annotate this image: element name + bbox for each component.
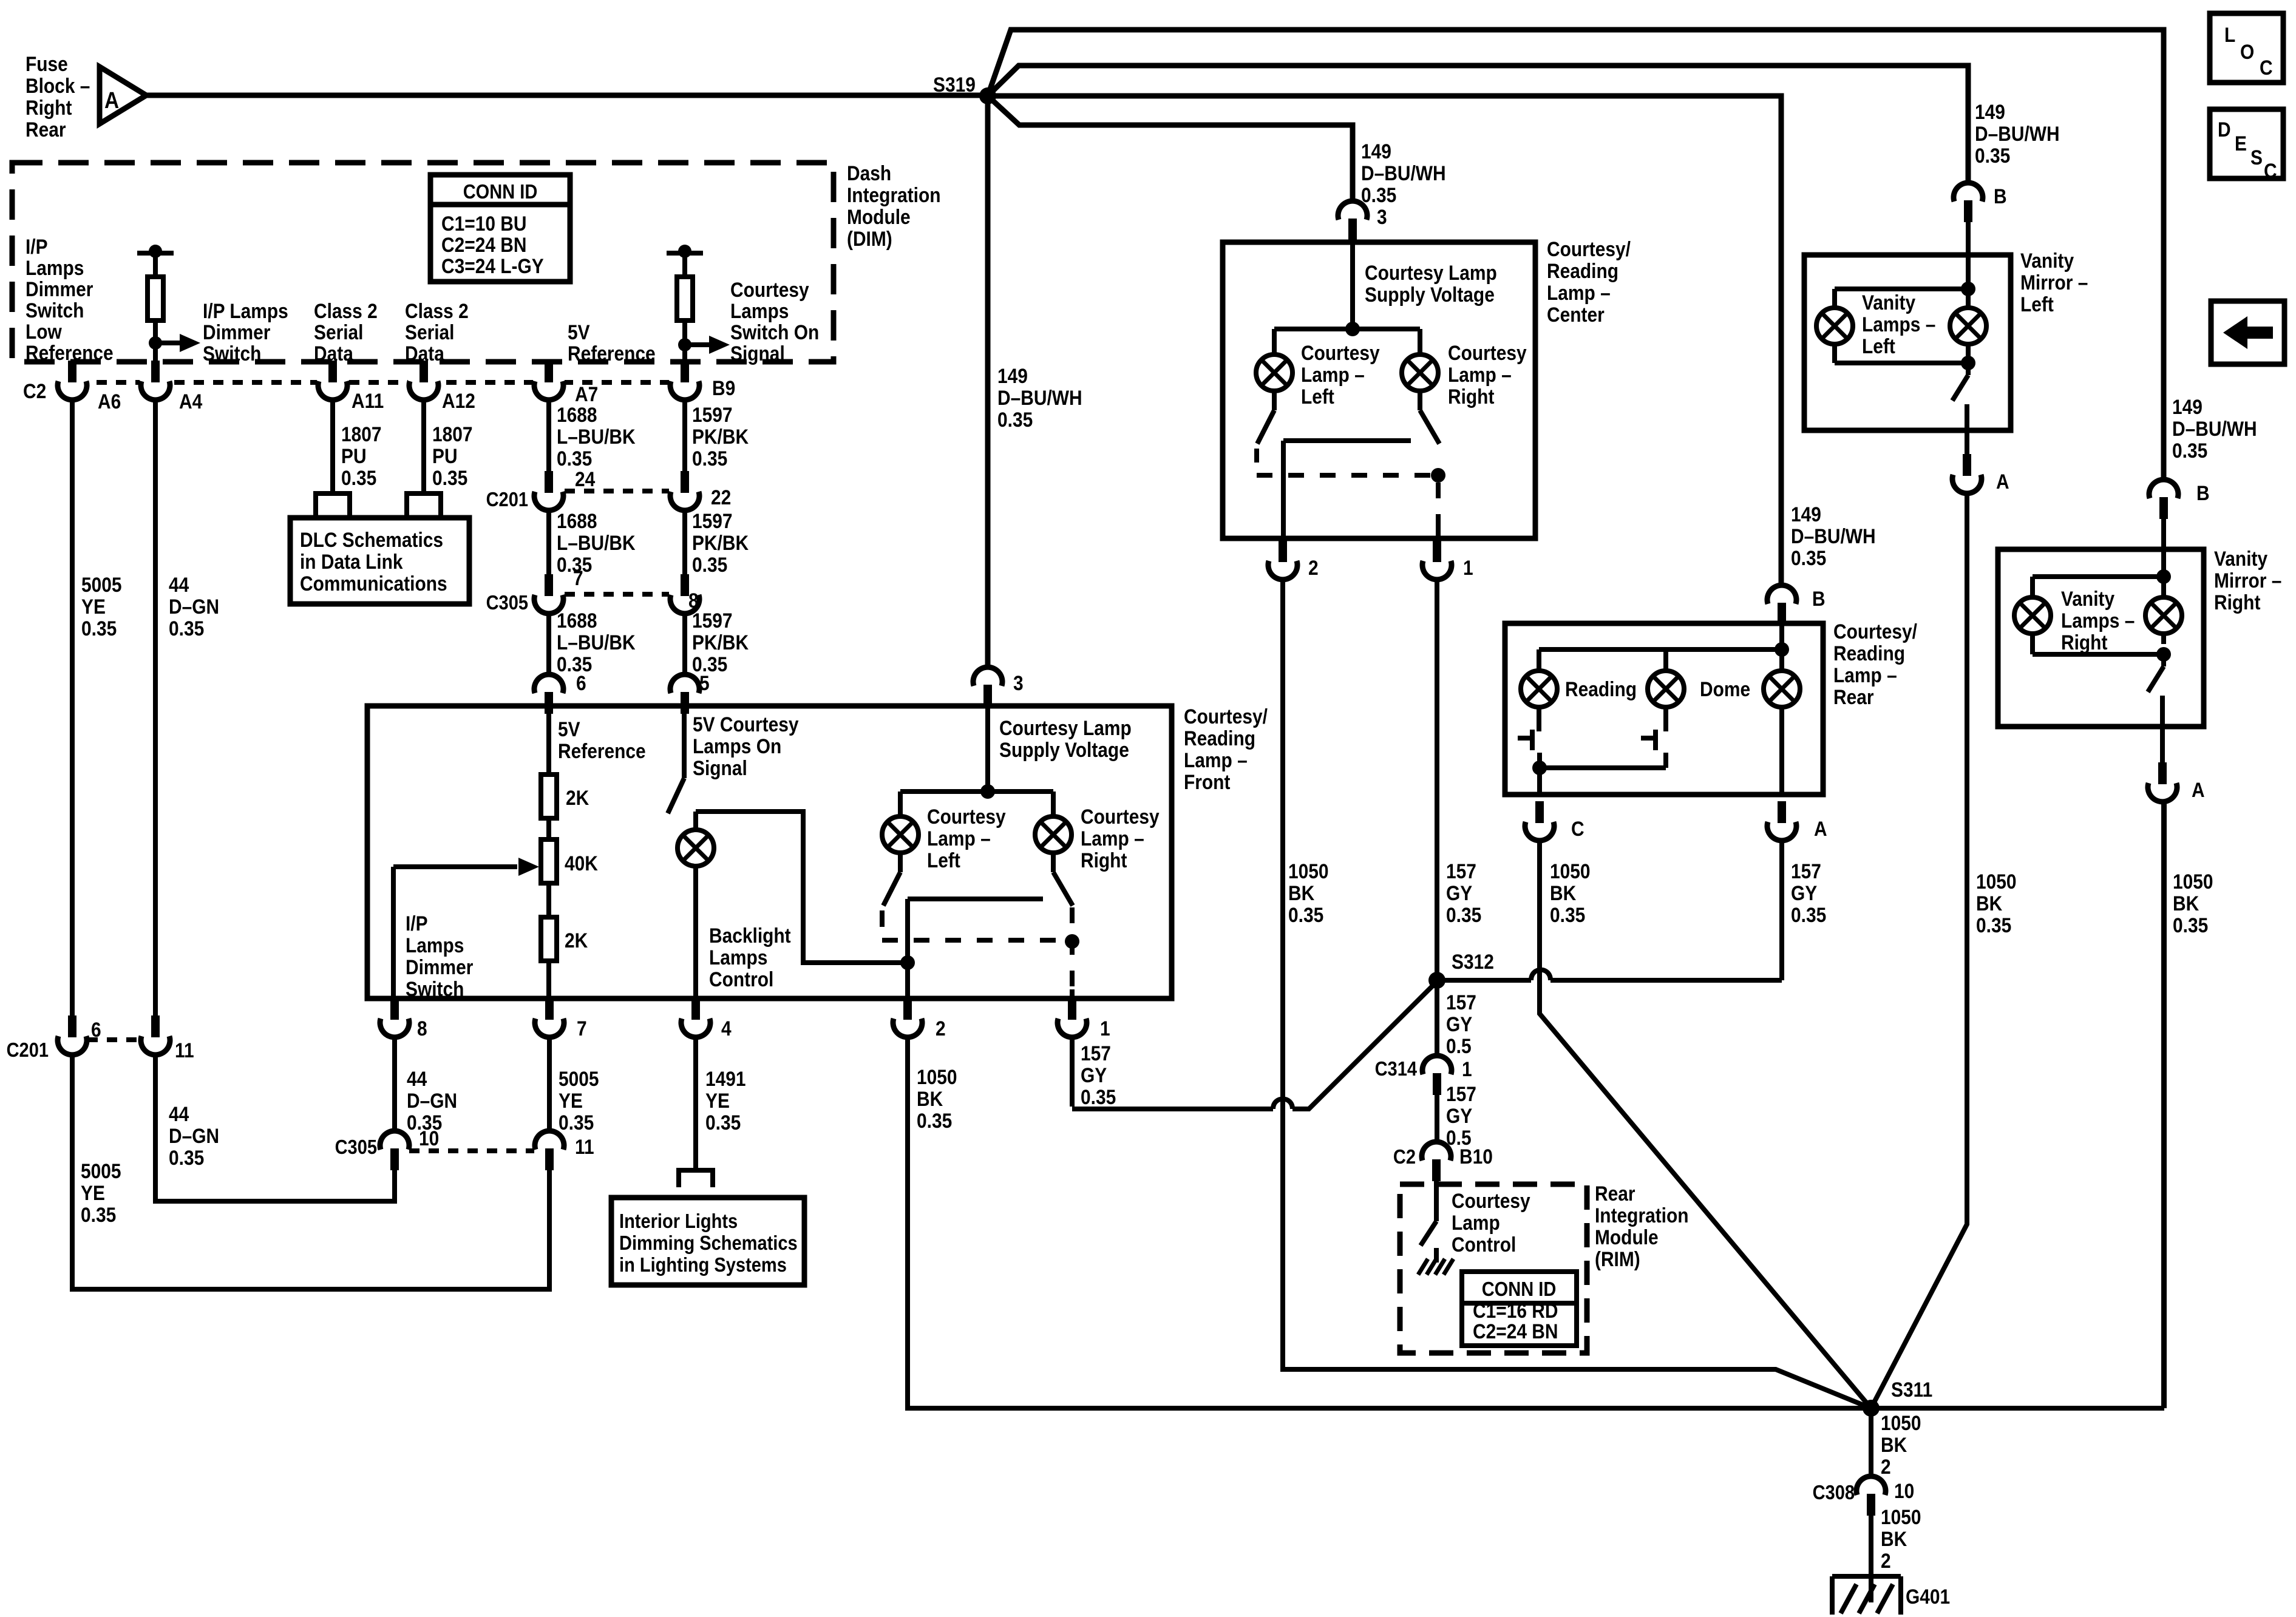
svg-text:149: 149 bbox=[997, 364, 1028, 387]
svg-text:Courtesy/: Courtesy/ bbox=[1547, 237, 1631, 260]
svg-text:CONN ID: CONN ID bbox=[463, 180, 538, 203]
svg-text:1491: 1491 bbox=[705, 1067, 746, 1090]
svg-text:Switch On: Switch On bbox=[730, 320, 819, 344]
svg-text:1050: 1050 bbox=[917, 1065, 957, 1088]
svg-text:Interior Lights: Interior Lights bbox=[619, 1210, 738, 1232]
svg-text:Reading: Reading bbox=[1547, 259, 1618, 282]
svg-text:C305: C305 bbox=[486, 591, 528, 614]
svg-text:C1=10 BU: C1=10 BU bbox=[441, 212, 526, 235]
svg-text:10: 10 bbox=[419, 1127, 439, 1150]
svg-text:3: 3 bbox=[1377, 205, 1387, 228]
svg-text:D–GN: D–GN bbox=[169, 1124, 219, 1147]
svg-text:Module: Module bbox=[847, 205, 911, 228]
svg-text:1807: 1807 bbox=[341, 422, 382, 446]
svg-text:in Data Link: in Data Link bbox=[300, 550, 403, 573]
svg-text:157: 157 bbox=[1791, 859, 1821, 883]
svg-text:(DIM): (DIM) bbox=[847, 227, 892, 250]
svg-text:Left: Left bbox=[927, 849, 960, 872]
svg-text:0.35: 0.35 bbox=[1791, 903, 1826, 926]
svg-text:Mirror –: Mirror – bbox=[2020, 271, 2088, 294]
svg-text:A6: A6 bbox=[98, 390, 121, 413]
svg-text:L: L bbox=[2224, 23, 2235, 46]
svg-text:Rear: Rear bbox=[1833, 685, 1874, 708]
svg-text:11: 11 bbox=[575, 1135, 594, 1158]
svg-text:(RIM): (RIM) bbox=[1595, 1247, 1640, 1270]
svg-text:24: 24 bbox=[575, 467, 595, 490]
svg-text:11: 11 bbox=[175, 1039, 194, 1062]
svg-text:0.35: 0.35 bbox=[692, 447, 727, 470]
svg-text:PK/BK: PK/BK bbox=[692, 631, 749, 654]
svg-text:Dimmer: Dimmer bbox=[25, 277, 93, 300]
svg-text:Lamps –: Lamps – bbox=[2061, 609, 2135, 632]
svg-text:Right: Right bbox=[1081, 849, 1127, 872]
svg-text:Control: Control bbox=[1452, 1233, 1516, 1256]
svg-text:DLC Schematics: DLC Schematics bbox=[300, 528, 443, 551]
svg-text:5005: 5005 bbox=[81, 573, 122, 596]
svg-text:C: C bbox=[2264, 159, 2277, 182]
svg-text:BK: BK bbox=[917, 1087, 943, 1110]
svg-text:44: 44 bbox=[407, 1067, 427, 1090]
svg-text:C2=24 BN: C2=24 BN bbox=[1473, 1320, 1558, 1343]
svg-text:Courtesy: Courtesy bbox=[1301, 341, 1380, 364]
svg-text:40K: 40K bbox=[565, 852, 598, 875]
svg-text:Left: Left bbox=[1862, 334, 1895, 358]
svg-text:Right: Right bbox=[2061, 631, 2108, 654]
svg-text:Backlight: Backlight bbox=[709, 924, 791, 947]
svg-text:Dash: Dash bbox=[847, 161, 891, 185]
svg-text:Reading: Reading bbox=[1184, 727, 1255, 750]
svg-text:Dimming Schematics: Dimming Schematics bbox=[619, 1232, 798, 1254]
svg-text:0.35: 0.35 bbox=[81, 1203, 116, 1226]
svg-text:0.35: 0.35 bbox=[692, 553, 727, 576]
svg-text:0.35: 0.35 bbox=[2173, 914, 2208, 937]
svg-text:0.35: 0.35 bbox=[557, 447, 592, 470]
svg-text:4: 4 bbox=[721, 1017, 732, 1040]
svg-text:Lamp –: Lamp – bbox=[1184, 748, 1248, 771]
svg-text:Lamps: Lamps bbox=[406, 934, 464, 957]
svg-text:Class 2: Class 2 bbox=[405, 299, 469, 322]
svg-text:BK: BK bbox=[1976, 892, 2002, 915]
svg-text:Lamps: Lamps bbox=[730, 299, 789, 322]
svg-text:Courtesy/: Courtesy/ bbox=[1833, 620, 1917, 643]
svg-text:0.5: 0.5 bbox=[1446, 1126, 1472, 1149]
svg-text:0.35: 0.35 bbox=[1288, 903, 1323, 926]
svg-text:149: 149 bbox=[2172, 395, 2203, 418]
svg-text:S319: S319 bbox=[933, 73, 976, 96]
svg-text:C2=24 BN: C2=24 BN bbox=[441, 233, 526, 256]
svg-text:1050: 1050 bbox=[1288, 859, 1329, 883]
svg-text:157: 157 bbox=[1081, 1042, 1111, 1065]
svg-text:E: E bbox=[2235, 132, 2247, 155]
svg-text:Courtesy: Courtesy bbox=[1081, 805, 1160, 828]
svg-text:0.35: 0.35 bbox=[1791, 546, 1826, 569]
svg-text:0.35: 0.35 bbox=[169, 617, 204, 640]
svg-text:Fuse: Fuse bbox=[25, 52, 68, 75]
svg-text:Rear: Rear bbox=[1595, 1182, 1635, 1205]
svg-text:A11: A11 bbox=[352, 389, 384, 412]
svg-text:L–BU/BK: L–BU/BK bbox=[557, 531, 636, 554]
svg-text:B9: B9 bbox=[712, 376, 735, 399]
svg-text:2: 2 bbox=[1308, 556, 1319, 579]
svg-text:Lamp: Lamp bbox=[1452, 1211, 1500, 1234]
svg-text:5V: 5V bbox=[558, 717, 580, 741]
svg-text:BK: BK bbox=[1550, 881, 1576, 904]
svg-text:157: 157 bbox=[1446, 859, 1476, 883]
svg-text:0.35: 0.35 bbox=[432, 466, 467, 489]
svg-text:Lamps: Lamps bbox=[25, 256, 84, 279]
svg-text:1: 1 bbox=[1100, 1017, 1110, 1040]
svg-text:Integration: Integration bbox=[1595, 1204, 1689, 1227]
svg-text:Signal: Signal bbox=[730, 342, 785, 365]
svg-text:A: A bbox=[1996, 470, 2009, 493]
svg-text:Front: Front bbox=[1184, 770, 1231, 793]
svg-text:Switch: Switch bbox=[406, 977, 464, 1000]
svg-text:5: 5 bbox=[699, 671, 710, 694]
svg-text:1688: 1688 bbox=[557, 609, 597, 632]
svg-text:Lamps: Lamps bbox=[709, 946, 767, 969]
svg-text:2K: 2K bbox=[566, 786, 589, 809]
svg-text:Reading: Reading bbox=[1833, 642, 1905, 665]
svg-text:A7: A7 bbox=[575, 382, 598, 405]
svg-text:1: 1 bbox=[1462, 1057, 1472, 1080]
svg-text:D–BU/WH: D–BU/WH bbox=[1791, 524, 1876, 547]
svg-text:Dimmer: Dimmer bbox=[406, 955, 473, 978]
svg-text:Reference: Reference bbox=[558, 739, 646, 762]
svg-text:0.35: 0.35 bbox=[705, 1111, 741, 1134]
svg-text:0.35: 0.35 bbox=[2172, 439, 2207, 462]
svg-text:157: 157 bbox=[1446, 1082, 1476, 1105]
svg-text:I/P: I/P bbox=[406, 912, 428, 935]
svg-text:1807: 1807 bbox=[432, 422, 473, 446]
svg-text:S311: S311 bbox=[1891, 1378, 1932, 1401]
svg-text:0.35: 0.35 bbox=[1550, 903, 1585, 926]
svg-text:A12: A12 bbox=[442, 389, 475, 412]
svg-text:Courtesy: Courtesy bbox=[1452, 1189, 1530, 1212]
svg-text:Supply Voltage: Supply Voltage bbox=[999, 738, 1129, 761]
svg-text:0.35: 0.35 bbox=[1446, 903, 1481, 926]
svg-text:149: 149 bbox=[1361, 140, 1391, 163]
svg-text:5V Courtesy: 5V Courtesy bbox=[693, 713, 799, 736]
svg-text:G401: G401 bbox=[1906, 1585, 1950, 1608]
svg-text:5V: 5V bbox=[568, 320, 590, 344]
svg-text:1050: 1050 bbox=[1550, 859, 1591, 883]
svg-text:Right: Right bbox=[2214, 591, 2261, 614]
svg-text:0.35: 0.35 bbox=[997, 408, 1033, 431]
svg-text:C305: C305 bbox=[335, 1136, 377, 1158]
svg-text:Courtesy: Courtesy bbox=[927, 805, 1006, 828]
svg-text:0.35: 0.35 bbox=[341, 466, 376, 489]
svg-text:6: 6 bbox=[91, 1018, 101, 1041]
svg-text:B: B bbox=[1812, 587, 1826, 610]
svg-text:0.35: 0.35 bbox=[81, 617, 117, 640]
svg-text:0.35: 0.35 bbox=[917, 1109, 952, 1132]
svg-text:1597: 1597 bbox=[692, 609, 733, 632]
svg-text:A4: A4 bbox=[179, 390, 202, 413]
svg-text:2K: 2K bbox=[565, 929, 588, 952]
svg-text:PU: PU bbox=[341, 444, 367, 467]
svg-text:C: C bbox=[1571, 817, 1584, 840]
svg-text:L–BU/BK: L–BU/BK bbox=[557, 425, 636, 448]
svg-text:Courtesy: Courtesy bbox=[730, 278, 809, 301]
svg-text:Class 2: Class 2 bbox=[314, 299, 378, 322]
svg-text:C314: C314 bbox=[1375, 1057, 1418, 1080]
svg-text:GY: GY bbox=[1446, 1104, 1472, 1127]
svg-text:2: 2 bbox=[936, 1017, 946, 1040]
svg-text:6: 6 bbox=[576, 671, 586, 694]
svg-text:7: 7 bbox=[577, 1017, 587, 1040]
svg-text:Module: Module bbox=[1595, 1225, 1659, 1249]
svg-text:149: 149 bbox=[1791, 503, 1821, 526]
svg-text:Lamp –: Lamp – bbox=[1833, 663, 1897, 686]
svg-text:Block –: Block – bbox=[25, 74, 90, 97]
svg-text:Lamps On: Lamps On bbox=[693, 734, 781, 758]
svg-text:0.35: 0.35 bbox=[557, 653, 592, 676]
svg-text:2: 2 bbox=[1881, 1549, 1891, 1572]
svg-text:CONN ID: CONN ID bbox=[1482, 1278, 1557, 1300]
svg-text:Switch: Switch bbox=[203, 342, 261, 365]
svg-text:GY: GY bbox=[1446, 881, 1472, 904]
svg-text:C201: C201 bbox=[7, 1039, 49, 1061]
svg-text:Serial: Serial bbox=[405, 320, 454, 344]
svg-text:Vanity: Vanity bbox=[1862, 291, 1915, 314]
svg-text:YE: YE bbox=[705, 1089, 730, 1112]
svg-text:BK: BK bbox=[1881, 1527, 1907, 1550]
svg-text:S312: S312 bbox=[1452, 950, 1494, 973]
svg-text:B: B bbox=[1994, 185, 2007, 208]
svg-text:GY: GY bbox=[1081, 1063, 1107, 1086]
svg-text:Lamp –: Lamp – bbox=[1547, 281, 1611, 304]
svg-text:1688: 1688 bbox=[557, 403, 597, 426]
svg-text:I/P Lamps: I/P Lamps bbox=[203, 299, 288, 322]
svg-text:Signal: Signal bbox=[693, 756, 747, 779]
svg-text:Supply Voltage: Supply Voltage bbox=[1365, 283, 1495, 306]
svg-text:Rear: Rear bbox=[25, 118, 66, 141]
svg-text:0.35: 0.35 bbox=[692, 653, 727, 676]
svg-text:Lamp –: Lamp – bbox=[1448, 363, 1512, 386]
svg-text:D: D bbox=[2218, 118, 2231, 141]
svg-text:PK/BK: PK/BK bbox=[692, 531, 749, 554]
svg-text:Vanity: Vanity bbox=[2061, 587, 2114, 610]
svg-text:0.5: 0.5 bbox=[1446, 1034, 1472, 1057]
svg-text:10: 10 bbox=[1894, 1479, 1914, 1502]
svg-text:3: 3 bbox=[1013, 671, 1024, 694]
svg-text:YE: YE bbox=[81, 595, 106, 618]
svg-text:Lamp –: Lamp – bbox=[927, 827, 991, 850]
svg-text:1688: 1688 bbox=[557, 509, 597, 532]
svg-text:Reference: Reference bbox=[568, 342, 656, 365]
svg-text:C2: C2 bbox=[1393, 1145, 1416, 1168]
svg-text:Courtesy/: Courtesy/ bbox=[1184, 705, 1268, 728]
svg-text:S: S bbox=[2250, 146, 2263, 169]
svg-text:44: 44 bbox=[169, 1102, 189, 1125]
svg-text:YE: YE bbox=[559, 1089, 583, 1112]
svg-text:D–GN: D–GN bbox=[169, 595, 219, 618]
svg-text:0.35: 0.35 bbox=[1975, 144, 2010, 167]
svg-text:C1=16 RD: C1=16 RD bbox=[1473, 1299, 1558, 1322]
svg-text:Center: Center bbox=[1547, 303, 1605, 326]
svg-text:D–BU/WH: D–BU/WH bbox=[997, 386, 1082, 409]
svg-text:Vanity: Vanity bbox=[2020, 249, 2074, 272]
svg-text:Low: Low bbox=[25, 320, 62, 343]
svg-text:157: 157 bbox=[1446, 991, 1476, 1014]
svg-text:2: 2 bbox=[1881, 1455, 1891, 1478]
svg-text:C308: C308 bbox=[1813, 1481, 1855, 1503]
svg-text:149: 149 bbox=[1975, 100, 2005, 123]
svg-text:8: 8 bbox=[417, 1017, 427, 1040]
svg-text:1050: 1050 bbox=[1976, 870, 2017, 893]
svg-text:D–BU/WH: D–BU/WH bbox=[1361, 161, 1446, 185]
svg-text:B: B bbox=[2196, 481, 2210, 504]
svg-text:1050: 1050 bbox=[1881, 1505, 1921, 1528]
svg-text:O: O bbox=[2240, 40, 2254, 63]
svg-text:PK/BK: PK/BK bbox=[692, 425, 749, 448]
svg-text:5005: 5005 bbox=[81, 1159, 121, 1182]
svg-text:0.35: 0.35 bbox=[1976, 914, 2011, 937]
svg-text:1597: 1597 bbox=[692, 509, 733, 532]
svg-text:Vanity: Vanity bbox=[2214, 547, 2267, 570]
svg-text:Courtesy: Courtesy bbox=[1448, 341, 1527, 364]
svg-text:Switch: Switch bbox=[25, 299, 84, 322]
svg-text:44: 44 bbox=[169, 573, 189, 596]
svg-text:0.35: 0.35 bbox=[1081, 1085, 1116, 1108]
svg-text:Right: Right bbox=[1448, 385, 1495, 408]
svg-text:C201: C201 bbox=[486, 488, 528, 510]
svg-text:in Lighting Systems: in Lighting Systems bbox=[619, 1253, 787, 1276]
svg-text:22: 22 bbox=[711, 486, 731, 509]
svg-text:1597: 1597 bbox=[692, 403, 733, 426]
svg-text:Mirror –: Mirror – bbox=[2214, 569, 2281, 592]
svg-text:A: A bbox=[104, 87, 119, 113]
svg-text:Dimmer: Dimmer bbox=[203, 320, 270, 344]
svg-text:BK: BK bbox=[2173, 892, 2199, 915]
svg-text:Left: Left bbox=[1301, 385, 1334, 408]
svg-text:0.35: 0.35 bbox=[1361, 183, 1396, 206]
svg-text:A: A bbox=[2192, 778, 2205, 801]
svg-text:C: C bbox=[2260, 56, 2273, 79]
svg-text:7: 7 bbox=[573, 566, 583, 589]
svg-text:Courtesy Lamp: Courtesy Lamp bbox=[999, 716, 1132, 739]
svg-text:Left: Left bbox=[2020, 293, 2054, 316]
svg-text:5005: 5005 bbox=[559, 1067, 599, 1090]
svg-text:BK: BK bbox=[1288, 881, 1314, 904]
svg-text:Lamp –: Lamp – bbox=[1301, 363, 1365, 386]
svg-text:Dome: Dome bbox=[1700, 677, 1750, 700]
svg-text:C2: C2 bbox=[23, 379, 46, 402]
svg-text:Serial: Serial bbox=[314, 320, 363, 344]
svg-text:Lamps –: Lamps – bbox=[1862, 313, 1935, 336]
svg-text:Right: Right bbox=[25, 96, 72, 119]
svg-text:YE: YE bbox=[81, 1181, 105, 1204]
svg-text:0.35: 0.35 bbox=[169, 1146, 204, 1169]
svg-text:1050: 1050 bbox=[2173, 870, 2213, 893]
svg-text:C3=24 L-GY: C3=24 L-GY bbox=[441, 254, 544, 277]
svg-text:Courtesy Lamp: Courtesy Lamp bbox=[1365, 261, 1497, 284]
svg-text:GY: GY bbox=[1446, 1012, 1472, 1036]
svg-text:D–BU/WH: D–BU/WH bbox=[1975, 122, 2060, 145]
svg-text:Communications: Communications bbox=[300, 572, 447, 595]
svg-text:BK: BK bbox=[1881, 1433, 1907, 1456]
svg-text:D–GN: D–GN bbox=[407, 1089, 457, 1112]
svg-text:GY: GY bbox=[1791, 881, 1817, 904]
svg-text:PU: PU bbox=[432, 444, 458, 467]
svg-text:Lamp –: Lamp – bbox=[1081, 827, 1144, 850]
svg-text:0.35: 0.35 bbox=[559, 1111, 594, 1134]
svg-text:I/P: I/P bbox=[25, 235, 48, 258]
svg-text:Integration: Integration bbox=[847, 183, 941, 206]
svg-text:1050: 1050 bbox=[1881, 1411, 1921, 1434]
svg-text:1: 1 bbox=[1463, 556, 1473, 579]
svg-text:Reading: Reading bbox=[1565, 677, 1637, 700]
svg-text:Control: Control bbox=[709, 968, 773, 991]
svg-text:A: A bbox=[1814, 817, 1827, 840]
svg-text:L–BU/BK: L–BU/BK bbox=[557, 631, 636, 654]
svg-text:D–BU/WH: D–BU/WH bbox=[2172, 417, 2257, 440]
